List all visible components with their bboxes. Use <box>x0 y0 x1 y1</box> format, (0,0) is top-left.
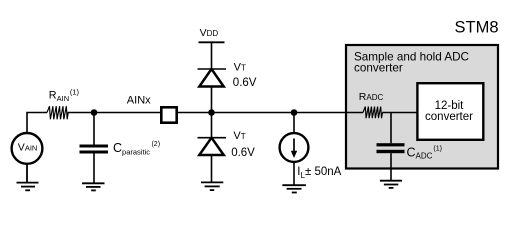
wire: VDD rail to top diode <box>211 42 213 69</box>
svg-text:VDD: VDD <box>200 27 219 39</box>
wire: node C to current source <box>293 113 295 133</box>
voltage source VAIN <box>12 133 43 164</box>
diode D2 (to ground) <box>198 137 227 139</box>
wire: R_AIN to pad box <box>67 112 160 114</box>
wire: C_parasitic to ground <box>93 154 95 184</box>
ground under current source <box>282 185 306 192</box>
ground under VAIN <box>17 164 39 191</box>
STM8 grey block: Sample and hold ADC converter <box>346 45 498 169</box>
wire: VAIN to R_AIN <box>27 113 47 133</box>
wire: current source to ground <box>293 162 295 185</box>
svg-text:AINx: AINx <box>127 94 151 106</box>
resistor R_AIN <box>47 106 68 119</box>
analog pad box <box>161 107 176 122</box>
ground under diode D2 <box>201 182 223 190</box>
wire: top diode to node B <box>211 87 213 138</box>
svg-text:VT: VT <box>234 61 246 73</box>
ground under C_ADC <box>380 181 402 188</box>
12-bit converter block U1 <box>417 83 483 140</box>
svg-text:0.6V: 0.6V <box>233 77 257 89</box>
resistor R_ADC <box>363 107 383 119</box>
current source IL <box>280 133 309 162</box>
capacitor C_ADC <box>377 143 405 146</box>
svg-text:converter: converter <box>425 111 473 123</box>
VDD rail bar <box>199 41 225 43</box>
ground under C_parasitic <box>82 183 105 190</box>
capacitor C_parasitic <box>80 145 109 148</box>
svg-text:RADC: RADC <box>359 91 384 103</box>
wire: pad box to 12-bit converter (main analog line) <box>178 112 363 114</box>
svg-text:STM8: STM8 <box>455 19 499 37</box>
node B (diode junction) <box>208 109 215 116</box>
node A (AINx junction) <box>91 109 98 116</box>
svg-text:VAIN: VAIN <box>18 142 38 154</box>
wire: C_ADC to ground <box>390 153 392 181</box>
wire: R_ADC to 12-bit converter <box>382 112 417 114</box>
wire: node A down to C_parasitic <box>93 113 95 145</box>
svg-text:converter: converter <box>354 61 403 74</box>
wire: bottom diode to ground <box>211 155 213 182</box>
svg-text:VT: VT <box>233 130 245 142</box>
svg-text:0.6V: 0.6V <box>231 147 255 159</box>
node C (leakage current junction) <box>291 109 298 116</box>
diode D1 (to VDD) <box>198 68 227 70</box>
wire: node down to C_ADC <box>390 113 392 144</box>
